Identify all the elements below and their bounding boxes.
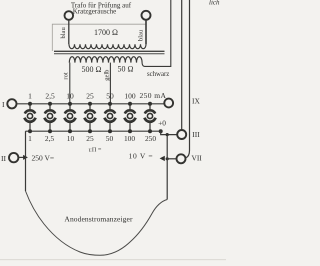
svg-text:50: 50 (106, 134, 114, 143)
wire right meter lead (166, 135, 168, 200)
transformer T1 core (54, 50, 165, 52)
wire top bus (17, 103, 164, 105)
svg-text:500 Ω: 500 Ω (82, 65, 102, 74)
svg-text:+0: +0 (158, 119, 166, 128)
wire primary lead right (145, 20, 147, 45)
svg-text:ι:Π =: ι:Π = (89, 147, 102, 154)
node dots on lower bus (28, 129, 163, 133)
page bottom faint rule (0, 259, 226, 260)
svg-text:Kratzgeräusche: Kratzgeräusche (73, 8, 117, 16)
svg-text:1: 1 (28, 92, 32, 101)
wire node to VII (167, 158, 176, 160)
svg-text:250 V=: 250 V= (32, 153, 55, 162)
svg-text:schwarz: schwarz (147, 71, 169, 78)
svg-text:VII: VII (192, 154, 203, 163)
svg-text:50 Ω: 50 Ω (118, 64, 134, 73)
wire to VII from top edge (185, 0, 189, 158)
svg-text:100: 100 (124, 92, 136, 101)
svg-text:Anodenstromanzeiger: Anodenstromanzeiger (64, 214, 133, 223)
svg-text:blau: blau (138, 29, 145, 41)
svg-text:IX: IX (192, 97, 200, 106)
svg-text:10: 10 (67, 134, 75, 143)
terminal I (7, 99, 16, 108)
terminal III (177, 130, 186, 139)
wire lower bus (26, 130, 161, 132)
svg-text:10 V =: 10 V = (129, 151, 154, 160)
node dot VII junction (166, 157, 169, 160)
svg-text:10: 10 (66, 92, 74, 101)
svg-text:250 mA: 250 mA (140, 91, 167, 100)
svg-text:blau: blau (60, 27, 67, 39)
svg-text:rot: rot (63, 72, 70, 79)
svg-text:lich: lich (209, 0, 220, 7)
wire node +0 to III (161, 131, 178, 134)
wire rot lead (69, 63, 71, 104)
node dot (166, 133, 169, 136)
svg-text:25: 25 (86, 134, 94, 143)
svg-text:50: 50 (106, 92, 114, 101)
transformer T1 secondary winding (69, 57, 142, 63)
wire primary lead left (68, 20, 70, 45)
svg-text:1700 Ω: 1700 Ω (94, 28, 118, 37)
terminal VII (177, 154, 186, 163)
svg-text:II: II (1, 154, 7, 163)
wire schwarz lead (142, 0, 171, 66)
svg-text:2,5: 2,5 (45, 92, 55, 101)
jacks J1..J7 (25, 104, 156, 131)
svg-text:1: 1 (28, 134, 32, 143)
wire left meter lead (25, 131, 27, 191)
arrow at node (23, 155, 28, 160)
wire gelb lead (109, 63, 111, 104)
svg-text:gelb: gelb (103, 70, 110, 81)
svg-text:100: 100 (124, 134, 135, 143)
transformer box (52, 24, 146, 51)
svg-text:25: 25 (86, 92, 94, 101)
terminal blau left (65, 11, 74, 20)
terminal blau right (142, 11, 151, 20)
terminal II (9, 153, 18, 162)
svg-text:250: 250 (145, 134, 156, 143)
wire to III from top edge (181, 0, 183, 130)
svg-text:2,5: 2,5 (45, 134, 55, 143)
wire II to node (19, 156, 26, 158)
terminal 250 mA (164, 99, 173, 108)
node dots on top bus (28, 102, 152, 106)
meter outline (26, 191, 168, 255)
transformer T1 primary winding (69, 44, 146, 48)
paper background (0, 0, 226, 266)
arrow at VII node (160, 156, 165, 161)
svg-text:III: III (192, 130, 200, 139)
